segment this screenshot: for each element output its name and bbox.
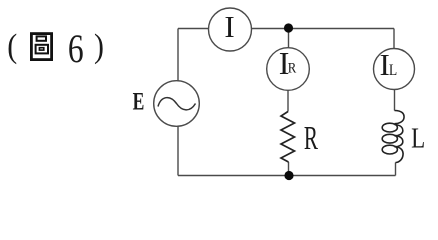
source E label [133, 86, 145, 115]
svg-text:R: R [288, 61, 297, 77]
svg-text:L: L [411, 122, 425, 154]
wire: left vertical upper (corner to source E) [177, 29, 179, 81]
wire: top-left horizontal (corner to ammeter I) [178, 28, 209, 30]
wire: resistor R to bottom node [288, 162, 290, 176]
wire: right vertical (corner to meter IL) [393, 29, 395, 49]
svg-text:(: ( [7, 26, 17, 64]
inductor L value label [411, 122, 425, 154]
wire: inductor L to bottom wire [395, 163, 397, 176]
wire: meter IL to inductor L [394, 90, 396, 111]
svg-text:I: I [224, 9, 234, 44]
wire: bottom horizontal [178, 175, 396, 177]
caption digit 6 [68, 26, 84, 70]
svg-text:6: 6 [68, 26, 84, 70]
caption close paren [94, 26, 104, 64]
svg-text:): ) [94, 26, 104, 64]
inductor L (coil) [382, 111, 404, 163]
resistor R value label [304, 120, 318, 157]
caption glyph 圖 (drawn) [31, 34, 51, 60]
svg-text:E: E [133, 86, 145, 115]
svg-text:L: L [389, 62, 397, 79]
meter IL (circle) [374, 49, 415, 90]
svg-text:R: R [304, 120, 318, 157]
node: top junction dot [284, 23, 293, 32]
source E sine wave [158, 98, 196, 110]
wire: meter IR to resistor R [287, 90, 289, 111]
wire: top horizontal (ammeter I to top-right corner) [252, 28, 395, 30]
wire: left vertical lower (source E to bottom wire) [177, 126, 179, 175]
node: bottom junction dot [284, 171, 293, 180]
resistor R (zigzag) [281, 112, 295, 163]
meter IR (circle) [267, 48, 310, 91]
wire: top node to meter IR [288, 31, 290, 48]
source E (AC source circle) [154, 81, 200, 127]
caption text "( 圖 6 )" : open paren [7, 26, 17, 64]
ammeter I (meter circle) [209, 8, 252, 51]
